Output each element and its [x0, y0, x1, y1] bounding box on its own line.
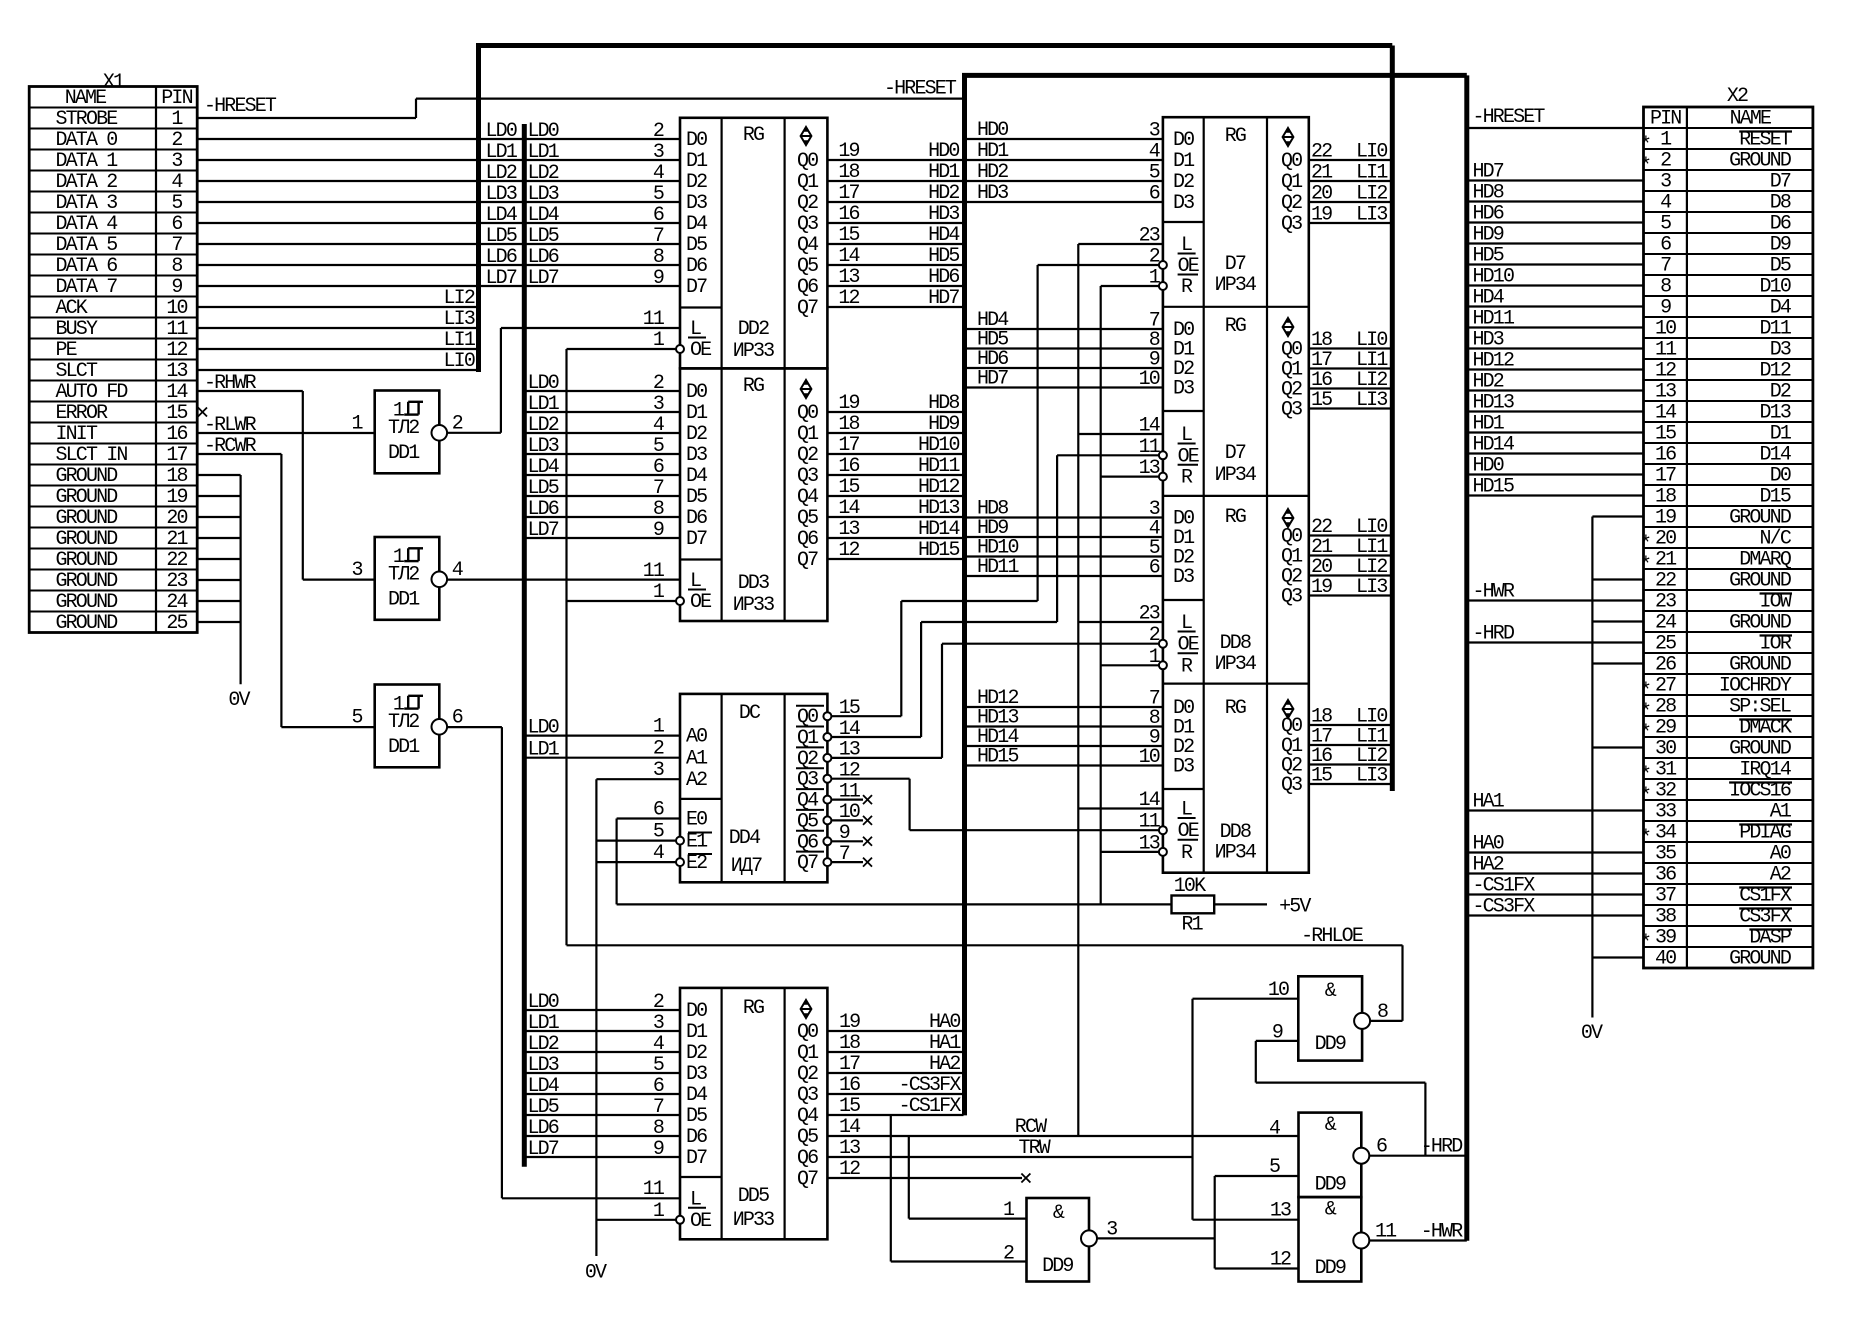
svg-text:LI3: LI3 [444, 308, 475, 331]
svg-text:DATA 1: DATA 1 [56, 150, 119, 173]
svg-text:LD0: LD0 [528, 717, 559, 740]
svg-text:8: 8 [171, 255, 182, 278]
svg-text:4: 4 [653, 162, 664, 185]
svg-text:DD1: DD1 [388, 442, 420, 465]
svg-text:D2: D2 [1173, 171, 1194, 194]
svg-text:DD4: DD4 [729, 827, 760, 850]
svg-text:+5V: +5V [1279, 896, 1311, 919]
svg-text:DATA 4: DATA 4 [56, 213, 118, 236]
svg-text:8: 8 [653, 246, 664, 269]
wire OE2 net: vertical V4 to D7.2 OE pin11 [1057, 455, 1159, 622]
svg-text:6: 6 [653, 204, 664, 227]
svg-text:HD7: HD7 [1473, 161, 1504, 184]
svg-text:2: 2 [171, 129, 182, 152]
svg-text:-HWR: -HWR [1473, 581, 1515, 604]
svg-text:15: 15 [839, 1095, 860, 1118]
svg-text:5: 5 [1149, 162, 1160, 185]
svg-text:D1: D1 [1173, 150, 1195, 173]
svg-text:E1: E1 [686, 831, 708, 854]
svg-text:GROUND: GROUND [56, 591, 118, 614]
svg-text:HD15: HD15 [977, 746, 1018, 769]
svg-text:LD5: LD5 [528, 1096, 559, 1119]
wire HA1 from HD bus to X2 pin33 [1467, 791, 1644, 814]
svg-text:10: 10 [166, 297, 187, 320]
svg-text:A2: A2 [1770, 864, 1791, 887]
svg-text:DATA 0: DATA 0 [56, 129, 118, 152]
svg-text:PIN: PIN [161, 87, 192, 110]
svg-text:R1: R1 [1182, 914, 1204, 937]
wire -CS3FX from HD bus to X2 pin38 [1467, 896, 1644, 919]
svg-text:-HRD: -HRD [1473, 623, 1514, 646]
svg-text:10K: 10K [1174, 875, 1206, 898]
svg-text:13: 13 [1655, 381, 1676, 404]
svg-text:15: 15 [838, 476, 859, 499]
svg-text:5: 5 [171, 192, 182, 215]
svg-text:9: 9 [653, 267, 664, 290]
svg-text:9: 9 [171, 276, 182, 299]
svg-text:Q1: Q1 [797, 1042, 819, 1065]
svg-text:D11: D11 [1760, 318, 1792, 341]
svg-text:19: 19 [838, 140, 859, 163]
svg-text:DD3: DD3 [738, 572, 769, 595]
svg-text:DD1: DD1 [388, 736, 420, 759]
svg-text:LD4: LD4 [486, 204, 517, 227]
svg-text:D0: D0 [686, 381, 707, 404]
svg-text:GROUND: GROUND [1729, 654, 1791, 677]
wire DD9.1 output pin8 to -RHLOE net [1370, 1020, 1402, 1022]
svg-text:5: 5 [653, 821, 664, 844]
svg-text:Q2: Q2 [1281, 192, 1302, 215]
svg-text:10: 10 [1655, 318, 1676, 341]
wire -RCWR from X1 pin17 to DD1.3 input [197, 435, 375, 727]
IC block D7/DD8 outline [1163, 117, 1309, 873]
svg-text:-RHWR: -RHWR [204, 372, 257, 395]
svg-text:HD15: HD15 [1473, 476, 1514, 499]
svg-text:22: 22 [1311, 141, 1332, 164]
svg-text:16: 16 [838, 455, 859, 478]
svg-text:N/C: N/C [1760, 528, 1792, 551]
svg-text:Q4: Q4 [797, 234, 818, 257]
svg-text:ИР33: ИР33 [733, 1209, 774, 1232]
wire -RHWR net: DD1.2 output to DD3 L pin11 [447, 560, 680, 583]
NAND gate DD9.1 [1268, 976, 1388, 1060]
svg-text:D3: D3 [1173, 566, 1194, 589]
connector X1 title [103, 71, 125, 94]
svg-text:5: 5 [352, 706, 363, 729]
register D7 section 2 (ИР34) [965, 309, 1391, 490]
svg-text:D5: D5 [1770, 255, 1791, 278]
svg-text:18: 18 [838, 161, 859, 184]
svg-text:HD8: HD8 [1473, 182, 1504, 205]
svg-text:6: 6 [1149, 183, 1160, 206]
svg-text:DD5: DD5 [738, 1185, 769, 1208]
svg-text:LI3: LI3 [1356, 765, 1387, 788]
svg-text:LI3: LI3 [1356, 576, 1387, 599]
svg-text:3: 3 [171, 150, 182, 173]
svg-text:HD14: HD14 [1473, 434, 1514, 457]
svg-text:12: 12 [839, 760, 860, 783]
wire DD4 Q3 pin12 to DD8 chip4 OE [823, 760, 1159, 831]
svg-text:LD7: LD7 [528, 267, 559, 290]
connector X2 title [1727, 85, 1748, 108]
svg-text:Q7: Q7 [797, 1168, 818, 1191]
svg-text:LI2: LI2 [444, 287, 475, 310]
svg-text:A1: A1 [1770, 801, 1792, 824]
wires HA0,HA1,HA2,-CS3FX,-CS1FX from DD5 Q0-Q4 to HD bus [827, 1011, 963, 1118]
svg-text:6: 6 [171, 213, 182, 236]
svg-text:HA0: HA0 [929, 1011, 960, 1034]
svg-text:ТЛ2: ТЛ2 [388, 564, 419, 587]
svg-text:Q0: Q0 [797, 1021, 818, 1044]
svg-text:GROUND: GROUND [56, 528, 118, 551]
wire -HWR from HD bus to X2 pin23 IOW [1467, 581, 1644, 604]
svg-text:14: 14 [839, 718, 860, 741]
svg-text:-CS3FX: -CS3FX [899, 1074, 962, 1097]
svg-text:9: 9 [1660, 297, 1671, 320]
svg-text:LD6: LD6 [528, 498, 559, 521]
svg-text:3: 3 [352, 559, 363, 582]
svg-text:LD2: LD2 [486, 162, 517, 185]
wire -HWR from DD9.3 output to HD bus [1369, 1221, 1467, 1244]
schmitt-trigger gate DD1.1 (ТЛ2) [352, 391, 463, 474]
wire HA0 from HD bus to X2 pin35 [1467, 833, 1644, 856]
wires LD0-LD7 from LD bus to DD5 D0-D7 [524, 991, 680, 1161]
connector X2 (IDE 40-pin table) [1640, 107, 1813, 971]
svg-text:Q5: Q5 [797, 1126, 818, 1149]
svg-text:Q1: Q1 [797, 171, 819, 194]
svg-text:D1: D1 [1770, 423, 1792, 446]
svg-text:33: 33 [1655, 801, 1676, 824]
svg-text:24: 24 [1655, 612, 1676, 635]
svg-text:23: 23 [166, 570, 187, 593]
svg-text:36: 36 [1655, 864, 1676, 887]
svg-text:*: * [1640, 785, 1650, 808]
svg-text:ИР33: ИР33 [733, 594, 774, 617]
svg-text:HD2: HD2 [1473, 371, 1504, 394]
svg-text:LI0: LI0 [444, 350, 475, 373]
svg-text:LD0: LD0 [528, 120, 559, 143]
no-connect DD4 Q7 pin7 [823, 843, 872, 867]
svg-text:D0: D0 [1173, 129, 1194, 152]
svg-text:HD0: HD0 [928, 140, 959, 163]
svg-text:11: 11 [643, 308, 665, 331]
wire LD0 to DD4 A0 pin1 [524, 716, 680, 740]
wire -HRESET from HD bus to X2 pin1 [1467, 106, 1644, 129]
svg-text:4: 4 [1660, 192, 1671, 215]
svg-text:30: 30 [1655, 738, 1676, 761]
svg-text:4: 4 [653, 1033, 664, 1056]
svg-text:5: 5 [1660, 213, 1671, 236]
no-connect DD4 Q4 pin11 [823, 780, 872, 804]
wire R net: vertical C with reset branches to R1 pull-up [1101, 286, 1159, 904]
wire RCW from DD5 Q5 to DD9.2 pin4 [827, 1116, 1298, 1139]
svg-text:Q5: Q5 [797, 507, 818, 530]
svg-text:*: * [1640, 722, 1650, 745]
svg-text:D0: D0 [686, 1000, 707, 1023]
svg-text:LD3: LD3 [528, 1054, 559, 1077]
wire -RHWR from X1 pin14 to DD1.2 input [197, 372, 375, 580]
svg-text:D8: D8 [1770, 192, 1791, 215]
svg-text:D1: D1 [686, 402, 708, 425]
svg-text:RG: RG [1225, 315, 1246, 338]
svg-text:E0: E0 [686, 809, 707, 832]
svg-text:D7: D7 [1225, 253, 1246, 276]
svg-text:LI2: LI2 [1356, 183, 1387, 206]
svg-text:15: 15 [166, 402, 187, 425]
svg-text:27: 27 [1655, 675, 1676, 698]
svg-text:4: 4 [1269, 1118, 1280, 1141]
register D7 section 1 (ИР34) [965, 119, 1391, 299]
register DD3 (ИР33 octal latch) [680, 368, 827, 621]
svg-text:10: 10 [839, 801, 860, 824]
svg-text:6: 6 [1660, 234, 1671, 257]
svg-text:ИР34: ИР34 [1215, 842, 1256, 865]
svg-text:Q7: Q7 [797, 297, 818, 320]
svg-text:D2: D2 [686, 423, 707, 446]
svg-text:A0: A0 [686, 726, 707, 749]
svg-text:12: 12 [166, 339, 187, 362]
svg-text:*: * [1640, 155, 1650, 178]
no-connect DD4 Q5 pin10 [823, 801, 872, 825]
svg-text:HD7: HD7 [977, 368, 1008, 391]
svg-text:RG: RG [1225, 125, 1246, 148]
svg-text:HD0: HD0 [977, 119, 1008, 142]
svg-text:GROUND: GROUND [56, 465, 118, 488]
svg-text:D3: D3 [1173, 192, 1194, 215]
svg-text:Q7: Q7 [797, 549, 818, 572]
svg-text:2: 2 [1660, 150, 1671, 173]
svg-text:3: 3 [653, 141, 664, 164]
svg-text:Q3: Q3 [797, 213, 818, 236]
svg-text:HD12: HD12 [1473, 350, 1514, 373]
svg-text:HA2: HA2 [1473, 854, 1504, 877]
svg-text:21: 21 [166, 528, 188, 551]
svg-text:A2: A2 [686, 769, 707, 792]
svg-text:*: * [1640, 533, 1650, 556]
svg-text:D7: D7 [1770, 171, 1791, 194]
wire DD4 E2 pin4 to ground net [596, 842, 684, 866]
wire -RLWR from X1 pin16 to DD1.1 input [197, 414, 375, 437]
svg-text:DD9: DD9 [1315, 1257, 1346, 1280]
svg-text:16: 16 [1655, 444, 1676, 467]
svg-text:GROUND: GROUND [56, 549, 118, 572]
wire -RLWR net: DD1.1 output to DD2 L pin11 [447, 308, 680, 433]
svg-text:LD3: LD3 [528, 183, 559, 206]
svg-text:NAME: NAME [65, 87, 106, 110]
wire DD9.4 pin1 from RCW net [909, 1136, 1027, 1219]
wire DD9.1 pin9 from -HRD feedback [1256, 1041, 1426, 1156]
ground 0V label (DD4/DD5 enable net) [585, 1262, 607, 1285]
svg-text:HD6: HD6 [1473, 203, 1504, 226]
wire DD4 Q2 pin13 to DD8 chip3 OE [823, 644, 1159, 762]
svg-text:19: 19 [1311, 204, 1332, 227]
schmitt-trigger gate DD1.3 (ТЛ2) [352, 685, 463, 768]
svg-text:0V: 0V [585, 1262, 607, 1285]
svg-text:LD5: LD5 [528, 477, 559, 500]
svg-text:OE: OE [690, 591, 711, 614]
svg-text:13: 13 [838, 518, 859, 541]
wire DD9.3 pin13 from TRW vertical [1193, 1219, 1299, 1221]
svg-text:LD6: LD6 [528, 246, 559, 269]
svg-text:18: 18 [839, 1032, 860, 1055]
svg-text:16: 16 [166, 423, 187, 446]
svg-text:A1: A1 [686, 748, 708, 771]
svg-text:D2: D2 [1770, 381, 1791, 404]
svg-text:12: 12 [839, 1158, 860, 1181]
svg-text:LD3: LD3 [486, 183, 517, 206]
svg-text:8: 8 [653, 1117, 664, 1140]
svg-text:D3: D3 [1770, 339, 1791, 362]
svg-text:D2: D2 [686, 171, 707, 194]
svg-text:3: 3 [1149, 120, 1160, 143]
svg-text:LD7: LD7 [528, 519, 559, 542]
svg-text:-HWR: -HWR [1421, 1221, 1463, 1244]
wire DD4 E1 pin5 to ground net [596, 821, 684, 845]
decoder DD4 (ИД7 3-to-8) [680, 694, 827, 882]
svg-text:D12: D12 [1760, 360, 1791, 383]
svg-text:D3: D3 [686, 192, 707, 215]
svg-text:4: 4 [653, 842, 664, 865]
svg-text:12: 12 [1655, 360, 1676, 383]
svg-text:HD11: HD11 [918, 455, 960, 478]
svg-text:DATA 6: DATA 6 [56, 255, 118, 278]
svg-text:29: 29 [1655, 717, 1676, 740]
svg-text:Q2: Q2 [797, 444, 818, 467]
svg-text:18: 18 [166, 465, 187, 488]
svg-text:14: 14 [1655, 402, 1676, 425]
svg-text:11: 11 [166, 318, 188, 341]
svg-text:19: 19 [1655, 507, 1676, 530]
svg-text:2: 2 [653, 991, 664, 1014]
svg-text:PE: PE [56, 339, 77, 362]
wire -HRD from DD9.2 output to HD bus [1369, 1136, 1467, 1159]
svg-text:D4: D4 [686, 1084, 707, 1107]
svg-text:DATA 2: DATA 2 [56, 171, 118, 194]
svg-text:6: 6 [653, 456, 664, 479]
svg-text:HD15: HD15 [918, 539, 959, 562]
svg-text:5: 5 [653, 435, 664, 458]
svg-text:LD0: LD0 [528, 991, 559, 1014]
svg-text:LD0: LD0 [528, 372, 559, 395]
svg-text:-CS1FX: -CS1FX [899, 1095, 962, 1118]
svg-text:D6: D6 [686, 1126, 707, 1149]
no-connect X1 pin15 ERROR [198, 408, 207, 417]
svg-text:ERROR: ERROR [56, 402, 109, 425]
no-connect DD4 Q6 pin9 [823, 822, 872, 846]
svg-text:HD13: HD13 [1473, 392, 1514, 415]
svg-text:19: 19 [838, 392, 859, 415]
svg-text:D7: D7 [686, 528, 707, 551]
svg-text:D5: D5 [686, 486, 707, 509]
svg-text:ИД7: ИД7 [731, 855, 762, 878]
svg-text:HD5: HD5 [928, 245, 959, 268]
wires HD7..HD15 from HD bus to X2 pins 3-18 [1467, 161, 1644, 499]
svg-text:D6: D6 [1770, 213, 1791, 236]
svg-text:2: 2 [653, 738, 664, 761]
svg-text:10: 10 [1139, 746, 1160, 769]
svg-text:LD2: LD2 [528, 162, 559, 185]
svg-text:HD2: HD2 [928, 182, 959, 205]
svg-text:13: 13 [166, 360, 187, 383]
svg-text:LI0: LI0 [1356, 141, 1387, 164]
svg-text:7: 7 [1660, 255, 1671, 278]
svg-text:D5: D5 [686, 1105, 707, 1128]
svg-text:22: 22 [1655, 570, 1676, 593]
svg-text:LD1: LD1 [486, 141, 518, 164]
svg-text:AUTO FD: AUTO FD [56, 381, 128, 404]
svg-text:HD5: HD5 [1473, 245, 1504, 268]
svg-text:LD6: LD6 [528, 1117, 559, 1140]
svg-text:GROUND: GROUND [1729, 948, 1791, 971]
svg-text:25: 25 [1655, 633, 1676, 656]
svg-text:D3: D3 [686, 444, 707, 467]
svg-text:HD14: HD14 [918, 518, 959, 541]
svg-text:NAME: NAME [1730, 108, 1771, 131]
svg-text:HD10: HD10 [918, 434, 959, 457]
svg-text:D3: D3 [686, 1063, 707, 1086]
svg-text:DD8: DD8 [1220, 632, 1251, 655]
svg-text:-RHLOE: -RHLOE [1301, 925, 1363, 948]
svg-text:DATA 5: DATA 5 [56, 234, 118, 257]
svg-text:HD4: HD4 [1473, 287, 1504, 310]
svg-text:35: 35 [1655, 843, 1676, 866]
svg-text:DD9: DD9 [1042, 1255, 1073, 1278]
svg-text:11: 11 [839, 780, 861, 803]
svg-text:Q0: Q0 [1281, 150, 1302, 173]
wire OE net: DD2 OE pin1 to DD3 OE pin1 and -RHLOE line [567, 329, 1403, 1021]
svg-text:DD9: DD9 [1315, 1033, 1346, 1056]
svg-text:RG: RG [1225, 697, 1246, 720]
NAND gate DD9.4 [1003, 1198, 1117, 1282]
svg-text:LD4: LD4 [528, 456, 559, 479]
svg-text:*: * [1640, 680, 1650, 703]
svg-text:Q4: Q4 [797, 1105, 818, 1128]
svg-text:IOCHRDY: IOCHRDY [1719, 675, 1792, 698]
svg-text:*: * [1640, 134, 1650, 157]
wires LD0-LD7 from X1 pins 2-9 to DD2 D0-D7 [197, 120, 680, 290]
svg-text:X2: X2 [1727, 85, 1748, 108]
svg-text:38: 38 [1655, 906, 1676, 929]
svg-text:Q7: Q7 [797, 852, 818, 875]
svg-text:HD3: HD3 [1473, 329, 1504, 352]
svg-text:15: 15 [1655, 423, 1676, 446]
wire DD9.1 pin10 from TRW net [1193, 999, 1299, 1220]
svg-text:-RLWR: -RLWR [204, 414, 257, 437]
svg-text:21: 21 [1311, 162, 1333, 185]
svg-text:LD4: LD4 [528, 1075, 559, 1098]
wire DD9.4 pin2 from -CS1FX net [891, 1115, 1027, 1262]
svg-text:Q2: Q2 [797, 192, 818, 215]
svg-text:11: 11 [1655, 339, 1677, 362]
svg-text:D7: D7 [686, 276, 707, 299]
svg-text:Q3: Q3 [1281, 399, 1302, 422]
svg-text:-HRESET: -HRESET [884, 78, 957, 101]
svg-text:LD1: LD1 [528, 141, 560, 164]
svg-text:16: 16 [839, 1074, 860, 1097]
svg-text:2: 2 [653, 372, 664, 395]
svg-text:19: 19 [166, 486, 187, 509]
svg-text:LD1: LD1 [528, 393, 560, 416]
svg-text:3: 3 [653, 759, 664, 782]
svg-text:2: 2 [653, 120, 664, 143]
svg-text:Q0: Q0 [797, 150, 818, 173]
svg-text:19: 19 [1311, 576, 1332, 599]
svg-text:GROUND: GROUND [56, 612, 118, 635]
svg-text:LI3: LI3 [1356, 204, 1387, 227]
svg-text:HD11: HD11 [1473, 308, 1515, 331]
svg-text:18: 18 [838, 413, 859, 436]
svg-text:STROBE: STROBE [56, 108, 118, 131]
